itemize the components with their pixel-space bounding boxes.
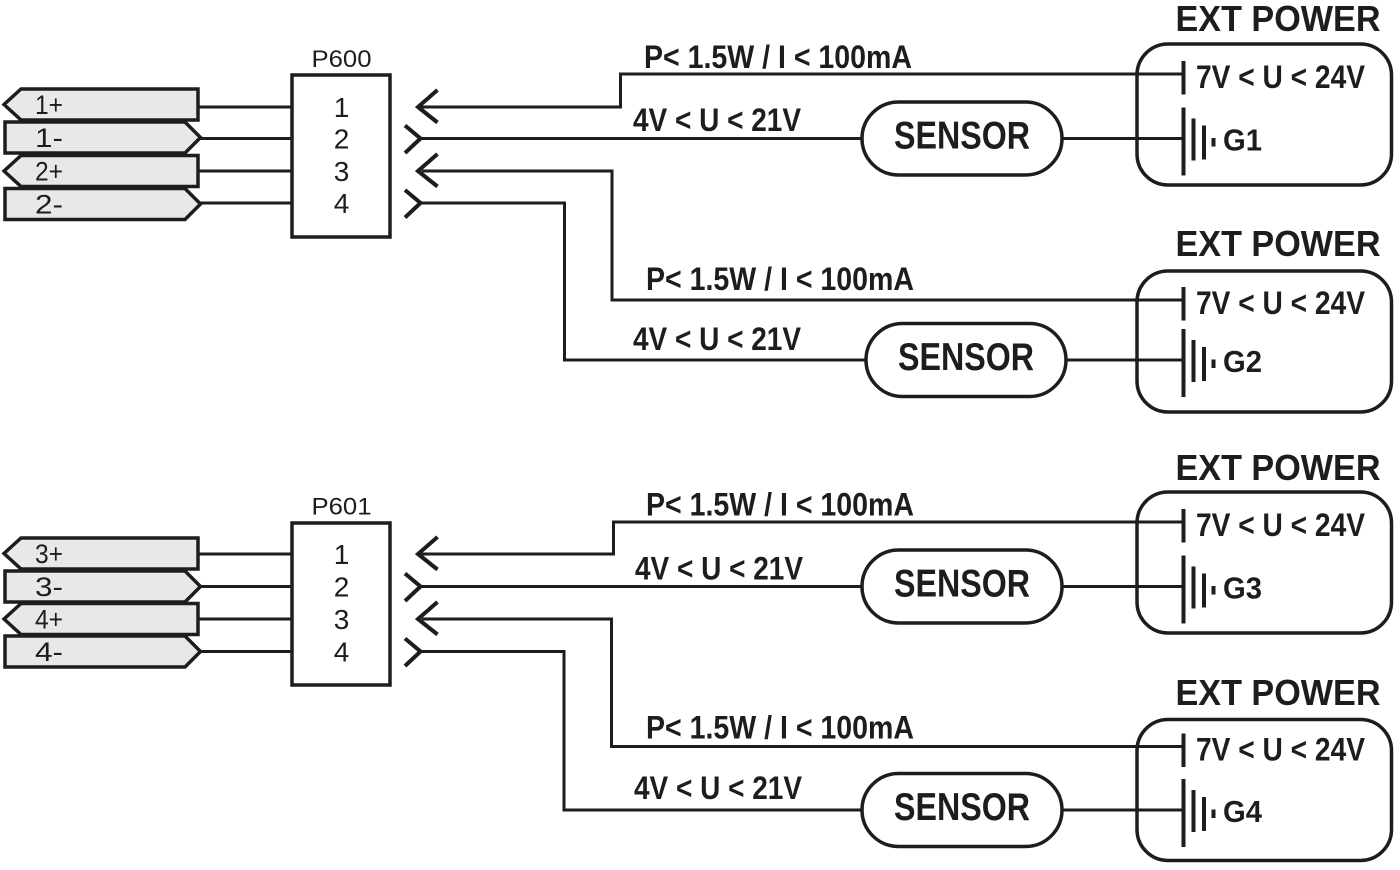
power wire channel 4 (pin to G4 + terminal) [422, 619, 1184, 747]
svg-text:SENSOR: SENSOR [894, 115, 1030, 158]
wire sensor S3 to battery G3 [1062, 585, 1184, 588]
left arrowhead at P601 pin 1 [418, 537, 438, 570]
right chevron at P601 pin 2 [405, 574, 421, 602]
left arrowhead at P600 pin 3 [418, 154, 438, 187]
battery G3 cell plate 4 (short dash) [1212, 586, 1216, 595]
svg-text:G2: G2 [1223, 344, 1262, 379]
battery G1 cell plate 2 [1192, 119, 1196, 161]
EXT POWER box G1 [1137, 44, 1392, 185]
left arrowhead at P600 pin 1 [418, 90, 438, 123]
battery G3 cell plate 3 [1202, 574, 1206, 608]
connector P601 body [292, 523, 390, 685]
battery G4 cell plate 2 [1192, 790, 1196, 832]
battery G1 cell plate 1 (long) [1182, 108, 1186, 176]
svg-text:4: 4 [334, 637, 350, 668]
power wire channel 3 (pin to G3 + terminal) [418, 522, 1184, 554]
signal wire channel 4 (pin to SENSOR) [421, 652, 863, 811]
EXT POWER box G2 [1137, 271, 1392, 412]
svg-text:2-: 2- [35, 190, 63, 220]
svg-text:P< 1.5W / I < 100mA: P< 1.5W / I < 100mA [644, 39, 912, 75]
sensor S2 body [866, 324, 1066, 397]
connector P600 body [292, 75, 390, 237]
svg-text:G1: G1 [1223, 123, 1262, 158]
sensor S4 body [862, 774, 1062, 847]
wire 2+ flag to P600 pin 3 [195, 170, 292, 173]
svg-text:G4: G4 [1223, 794, 1263, 829]
wire 4- flag to P601 pin 4 [195, 650, 292, 653]
signal wire channel 3 (pin to SENSOR) [421, 585, 863, 588]
svg-text:3-: 3- [35, 572, 63, 602]
battery G2 cell plate 2 [1192, 340, 1196, 382]
wire 3+ flag to P601 pin 1 [195, 553, 292, 556]
svg-text:EXT POWER: EXT POWER [1176, 672, 1381, 713]
battery G2 cell plate 4 (short dash) [1212, 360, 1216, 369]
net flag 4+ [4, 604, 198, 635]
EXT POWER box G4 [1137, 720, 1392, 861]
right chevron at P600 pin 2 [405, 126, 421, 154]
wire sensor S1 to battery G1 [1062, 137, 1184, 140]
svg-text:P601: P601 [312, 494, 372, 521]
left arrowhead at P601 pin 3 [418, 602, 438, 635]
svg-text:1: 1 [334, 539, 350, 570]
signal wire channel 1 (pin to SENSOR) [421, 137, 863, 140]
svg-text:P< 1.5W / I < 100mA: P< 1.5W / I < 100mA [646, 487, 914, 523]
battery G4 cell plate 4 (short dash) [1212, 810, 1216, 819]
battery G1 cell plate 4 (short dash) [1212, 138, 1216, 147]
battery G2 cell plate 3 [1202, 347, 1206, 381]
svg-text:SENSOR: SENSOR [894, 563, 1030, 606]
svg-text:2+: 2+ [35, 157, 63, 187]
svg-text:4V < U < 21V: 4V < U < 21V [635, 551, 804, 587]
battery G4 cell plate 3 [1202, 797, 1206, 831]
wire 1+ flag to P600 pin 1 [195, 106, 292, 109]
net flag 1- [5, 122, 201, 153]
wire 1- flag to P600 pin 2 [195, 137, 292, 140]
svg-text:SENSOR: SENSOR [898, 336, 1034, 379]
wire 4+ flag to P601 pin 3 [195, 618, 292, 621]
signal wire channel 2 (pin to SENSOR) [421, 203, 867, 360]
sensor S3 body [862, 550, 1062, 623]
right chevron at P600 pin 4 [405, 190, 421, 218]
power wire channel 2 (pin to G2 + terminal) [422, 171, 1184, 300]
wire 2- flag to P600 pin 4 [195, 202, 292, 205]
svg-text:4V < U < 21V: 4V < U < 21V [633, 321, 802, 357]
svg-text:G3: G3 [1223, 571, 1262, 606]
svg-text:7V < U < 24V: 7V < U < 24V [1196, 285, 1366, 321]
wire 3- flag to P601 pin 2 [195, 585, 292, 588]
power wire channel 1 (pin to G1 + terminal) [418, 74, 1184, 107]
svg-text:P< 1.5W / I < 100mA: P< 1.5W / I < 100mA [646, 261, 914, 297]
battery G4 positive terminal plate [1182, 734, 1186, 768]
svg-text:EXT POWER: EXT POWER [1176, 447, 1381, 488]
battery G3 positive terminal plate [1182, 509, 1186, 543]
svg-text:SENSOR: SENSOR [894, 786, 1030, 829]
svg-text:3+: 3+ [35, 539, 63, 569]
battery G1 cell plate 3 [1202, 126, 1206, 160]
svg-text:P< 1.5W / I < 100mA: P< 1.5W / I < 100mA [646, 710, 914, 746]
svg-text:P600: P600 [312, 46, 372, 73]
svg-text:3: 3 [334, 604, 350, 635]
svg-text:2: 2 [334, 572, 350, 603]
sensor S1 body [862, 102, 1062, 175]
battery G2 positive terminal plate [1182, 287, 1186, 321]
svg-text:4-: 4- [35, 637, 63, 667]
svg-text:1+: 1+ [35, 90, 63, 120]
net flag 2+ [4, 156, 198, 187]
net flag 2- [5, 189, 201, 220]
svg-text:4V < U < 21V: 4V < U < 21V [634, 770, 803, 806]
battery G4 cell plate 1 (long) [1182, 779, 1186, 847]
svg-text:4: 4 [334, 188, 350, 219]
svg-text:4+: 4+ [35, 605, 63, 635]
net flag 1+ [4, 89, 198, 120]
svg-text:EXT POWER: EXT POWER [1176, 223, 1381, 264]
wire sensor S2 to battery G2 [1066, 359, 1184, 362]
net flag 3+ [4, 538, 198, 569]
wire sensor S4 to battery G4 [1062, 809, 1184, 812]
battery G1 positive terminal plate [1182, 61, 1186, 95]
right chevron at P601 pin 4 [405, 639, 421, 667]
svg-text:3: 3 [334, 156, 350, 187]
EXT POWER box G3 [1137, 492, 1392, 633]
battery G3 cell plate 2 [1192, 567, 1196, 609]
svg-text:1: 1 [334, 92, 350, 123]
net flag 4- [5, 636, 201, 667]
svg-text:1-: 1- [35, 123, 63, 153]
battery G3 cell plate 1 (long) [1182, 556, 1186, 624]
svg-text:4V < U < 21V: 4V < U < 21V [633, 102, 802, 138]
svg-text:7V < U < 24V: 7V < U < 24V [1196, 732, 1366, 768]
battery G2 cell plate 1 (long) [1182, 329, 1186, 397]
svg-text:2: 2 [334, 124, 350, 155]
svg-text:EXT POWER: EXT POWER [1176, 0, 1381, 39]
svg-text:7V < U < 24V: 7V < U < 24V [1196, 507, 1366, 543]
svg-text:7V < U < 24V: 7V < U < 24V [1196, 59, 1366, 95]
net flag 3- [5, 571, 201, 602]
